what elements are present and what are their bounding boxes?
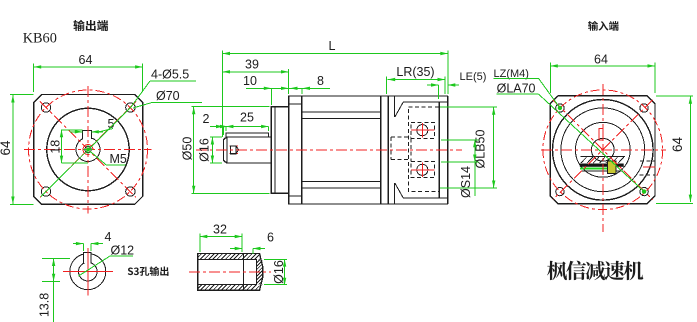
svg-text:64: 64 [0, 140, 13, 156]
svg-text:Ø16: Ø16 [272, 260, 286, 284]
svg-text:64: 64 [594, 53, 608, 67]
svg-text:39: 39 [245, 58, 259, 72]
svg-text:10: 10 [243, 74, 257, 88]
svg-text:LE(5): LE(5) [460, 71, 487, 83]
svg-text:13.8: 13.8 [38, 293, 52, 317]
svg-text:25: 25 [240, 111, 254, 125]
svg-text:LR(35): LR(35) [396, 65, 434, 79]
svg-text:2: 2 [203, 112, 210, 126]
svg-text:6: 6 [267, 231, 274, 245]
svg-text:ØLB50: ØLB50 [474, 129, 488, 168]
svg-text:ØLA70: ØLA70 [497, 82, 536, 96]
svg-text:64: 64 [79, 53, 93, 67]
svg-text:4-Ø5.5: 4-Ø5.5 [151, 68, 189, 82]
svg-text:Ø12: Ø12 [111, 244, 135, 258]
svg-text:32: 32 [213, 223, 227, 237]
svg-text:ØS14: ØS14 [459, 166, 473, 198]
svg-text:KB60: KB60 [23, 31, 57, 47]
svg-text:Ø50: Ø50 [181, 137, 195, 161]
svg-text:Ø70: Ø70 [156, 89, 180, 103]
svg-text:4: 4 [105, 230, 112, 244]
svg-text:M5: M5 [110, 152, 127, 166]
svg-text:L: L [329, 39, 336, 53]
svg-text:18: 18 [49, 140, 63, 154]
svg-text:Ø16: Ø16 [198, 138, 212, 162]
svg-text:8: 8 [317, 74, 324, 88]
svg-text:64: 64 [670, 137, 685, 153]
